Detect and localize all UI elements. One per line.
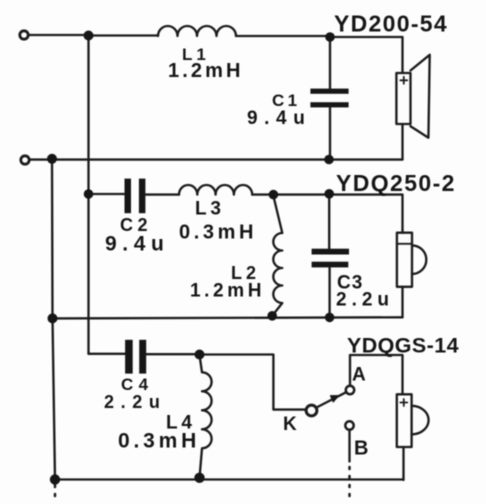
wire L1 to C1 top node [236,35,330,37]
node: mid rail left [48,313,58,323]
wire node to switch feed [200,355,306,410]
svg-text:L3: L3 [195,199,225,220]
wire section2 bottom rail [53,317,403,318]
wire speaker2 bottom lead [401,287,403,318]
wire C2 to L3 [145,193,179,195]
wire bottom-left dotted [54,485,57,502]
svg-text:9.4u: 9.4u [247,108,311,129]
input terminal T1 (top) [20,31,28,39]
speaker U2 dome [412,245,426,274]
svg-text:9.4u: 9.4u [105,233,169,256]
node: L3/L2 junction [269,190,279,200]
switch K lever arrowhead [330,396,339,403]
speaker U3 body (YDQGS-14) [397,394,412,447]
inductor L1 [158,26,236,36]
inductor L4 (vertical) [200,355,212,478]
speaker U3 dome [412,406,429,435]
svg-text:K: K [283,414,297,435]
speaker U2 inner line [398,243,411,245]
wire L3 to speaker2 top [252,195,402,233]
node: C3 top [324,189,334,199]
wire C3 top stem [328,194,330,249]
svg-text:YDQGS-14: YDQGS-14 [347,334,459,358]
wire C1 node to speaker1 top [330,37,403,73]
speaker U1 plus mark [400,77,407,84]
node: C1 top [325,32,335,42]
wire C1 bottom stem [329,107,331,159]
switch terminal A circle [346,386,354,394]
svg-text:1.2mH: 1.2mH [168,60,244,82]
svg-text:1.2mH: 1.2mH [190,281,265,302]
capacitor C3 [312,249,349,268]
node: L2 bottom [267,311,277,321]
inductor L3 [179,185,252,195]
switch terminal B circle [345,421,353,429]
node: bottom rail left [50,474,60,484]
speaker U1 cone [411,55,430,138]
wire A to speaker3 top [350,355,403,394]
svg-text:2.2u: 2.2u [336,290,394,311]
svg-text:0.3mH: 0.3mH [118,430,200,453]
speaker U2 body (YDQ250-2) [397,233,412,287]
wire positive bus (x=88) [87,36,89,354]
svg-text:2.2u: 2.2u [104,392,166,412]
wire C3 bottom stem [328,267,330,317]
wire bus turn to C4 [89,353,126,355]
wire B lead dotted [348,467,351,502]
node: L4 bottom [194,473,204,483]
svg-text:A: A [352,365,366,386]
speaker U1 body (YD200-54) [396,73,410,124]
wire node to L1 [89,34,159,36]
node: T2 bus junction [47,154,57,164]
svg-text:YDQ250-2: YDQ250-2 [336,170,456,196]
svg-text:B: B [354,438,368,460]
wire negative bus (left) [52,159,55,480]
wire bottom rail [55,478,404,480]
switch K lever [317,392,346,407]
capacitor C4 [125,340,146,374]
capacitor C1 [310,89,348,108]
wire T2 return line (section1 bottom rail) [30,158,403,160]
input terminal T2 (bottom) [21,156,29,164]
svg-text:YD200-54: YD200-54 [334,11,448,37]
wire B lead solid [348,430,350,462]
speaker U3 plus mark [400,399,407,406]
node: C2 feed [84,189,94,199]
capacitor C2 [125,179,146,214]
node: T1 bus junction [84,31,94,41]
wire speaker3 bottom lead [402,447,404,480]
node: C4/L4 junction [195,350,205,360]
wire node to C2 [89,193,125,195]
wire speaker1 bottom lead [401,124,403,159]
node: C3 bottom [325,313,335,323]
node: C1 bottom [324,155,334,165]
wire C1 top stem [329,37,331,89]
wire T1 to node [29,34,89,36]
switch K pivot [306,405,317,416]
wire C4 to L4 node [146,353,199,355]
svg-text:0.3mH: 0.3mH [179,222,257,244]
inductor L2 (vertical) [272,196,282,316]
